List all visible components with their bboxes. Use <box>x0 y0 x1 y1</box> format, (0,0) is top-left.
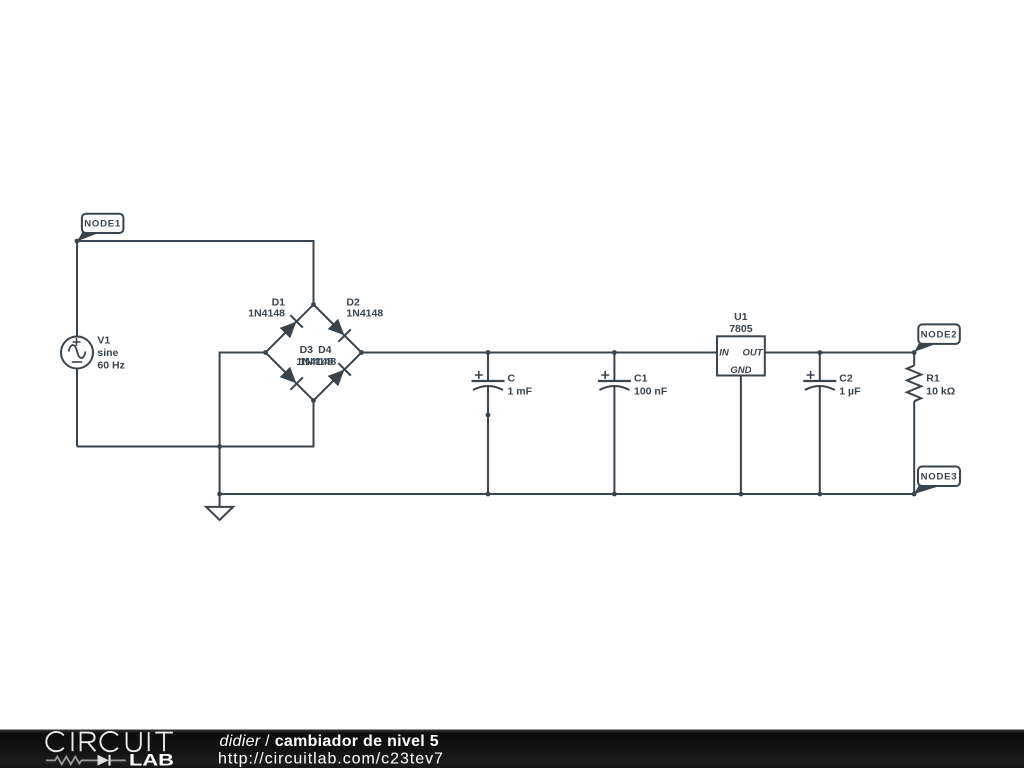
diode bridge diamond <box>266 305 362 401</box>
junction NODE2 at R1 top <box>912 350 917 355</box>
svg-text:1N4148: 1N4148 <box>299 356 336 368</box>
junction NODE3 at R1 bottom <box>912 492 917 497</box>
svg-text:C2: C2 <box>839 373 853 385</box>
svg-text:LAB: LAB <box>129 751 174 768</box>
svg-text:C1: C1 <box>634 373 648 385</box>
wire bottom from V1 to bridge bottom <box>77 401 314 447</box>
wire R1 leads <box>913 353 915 495</box>
capacitor C2 <box>803 371 836 390</box>
junction bridge bottom vertex <box>311 398 316 403</box>
svg-text:1 mF: 1 mF <box>508 385 533 397</box>
U1 pin labels IN OUT GND <box>719 347 763 376</box>
D3 D4 designator and value labels <box>296 344 336 368</box>
footer title text <box>220 733 439 750</box>
voltage source V1 <box>61 337 93 369</box>
wire V1 bottom lead <box>76 369 78 447</box>
svg-text:http://circuitlab.com/c23tev7: http://circuitlab.com/c23tev7 <box>218 751 444 768</box>
svg-text:10 kΩ: 10 kΩ <box>926 385 955 397</box>
svg-text:D4: D4 <box>318 344 332 356</box>
wire ground bus <box>220 493 915 495</box>
footer url text <box>218 751 444 768</box>
node NODE2 flag <box>914 324 960 352</box>
svg-text:didier / cambiador de nivel 5: didier / cambiador de nivel 5 <box>220 733 439 750</box>
wire U1 GND lead <box>740 376 742 495</box>
svg-text:NODE1: NODE1 <box>84 219 121 230</box>
node NODE1 flag <box>77 214 123 242</box>
junction ground bus left end <box>217 492 222 497</box>
junction bridge right vertex <box>359 350 364 355</box>
CircuitLab logo CIRCUIT <box>46 732 173 751</box>
svg-text:IN: IN <box>719 347 730 358</box>
junction C1 bottom on ground bus <box>612 492 617 497</box>
svg-text:C: C <box>508 373 516 385</box>
C designator and value label <box>508 373 533 398</box>
logo LAB text <box>129 751 174 768</box>
svg-text:U1: U1 <box>734 311 748 323</box>
svg-text:sine: sine <box>97 347 118 359</box>
wire capacitor C2 leads <box>819 353 821 495</box>
svg-text:1N4148: 1N4148 <box>346 307 383 319</box>
svg-text:V1: V1 <box>97 335 110 347</box>
junction U1 GND on ground bus <box>739 492 744 497</box>
wire U1 OUT to R1 top <box>765 352 914 354</box>
wire V1 top lead <box>76 240 78 337</box>
capacitor C1 <box>598 371 631 390</box>
diode D1 <box>280 315 303 338</box>
svg-text:NODE3: NODE3 <box>921 472 958 483</box>
wire bridge right vertex to U1 IN <box>362 352 718 354</box>
diode D4 <box>328 363 351 386</box>
junction bottom wire to ground column <box>217 444 222 449</box>
svg-text:OUT: OUT <box>743 347 764 358</box>
junction C bottom on ground bus <box>486 492 491 497</box>
diode D3 <box>280 367 303 390</box>
D1 designator and value label <box>248 297 285 320</box>
junction bridge top vertex <box>311 302 316 307</box>
C2 designator and value label <box>839 373 861 398</box>
svg-text:100 nF: 100 nF <box>634 385 668 397</box>
wire capacitor C1 leads <box>613 353 615 495</box>
R1 designator and value label <box>926 373 955 398</box>
svg-text:D3: D3 <box>300 344 314 356</box>
wire NODE1 top horizontal to bridge top <box>77 241 314 305</box>
svg-text:1N4148: 1N4148 <box>248 307 285 319</box>
junction NODE1 at V1 top corner <box>75 239 80 244</box>
svg-text:GND: GND <box>730 365 751 376</box>
resistor R1 <box>907 366 921 402</box>
svg-text:7805: 7805 <box>729 323 753 335</box>
junction bridge left vertex <box>263 350 268 355</box>
junction C top on output rail <box>486 350 491 355</box>
footer bar <box>0 730 1024 768</box>
diode D2 <box>328 319 351 342</box>
svg-text:R1: R1 <box>926 373 940 385</box>
V1 designator and value labels <box>97 335 124 372</box>
junction C1 top on output rail <box>612 350 617 355</box>
svg-text:1 µF: 1 µF <box>839 385 861 397</box>
svg-text:NODE2: NODE2 <box>921 330 958 341</box>
U1 designator and value label <box>729 311 753 335</box>
C1 designator and value label <box>634 373 668 398</box>
capacitor C <box>472 371 505 390</box>
wire capacitor C leads <box>487 353 489 495</box>
regulator U1 7805 <box>717 336 765 375</box>
junction C2 top on output rail <box>817 350 822 355</box>
logo resistor-diode glyph <box>46 755 126 766</box>
svg-text:60 Hz: 60 Hz <box>97 360 124 372</box>
node NODE3 flag <box>914 467 960 494</box>
junction C2 bottom on ground bus <box>817 492 822 497</box>
D2 designator and value label <box>346 297 383 320</box>
junction on C lower lead <box>486 413 491 418</box>
ground <box>206 494 233 520</box>
wire bridge left vertex to ground column <box>220 353 266 495</box>
